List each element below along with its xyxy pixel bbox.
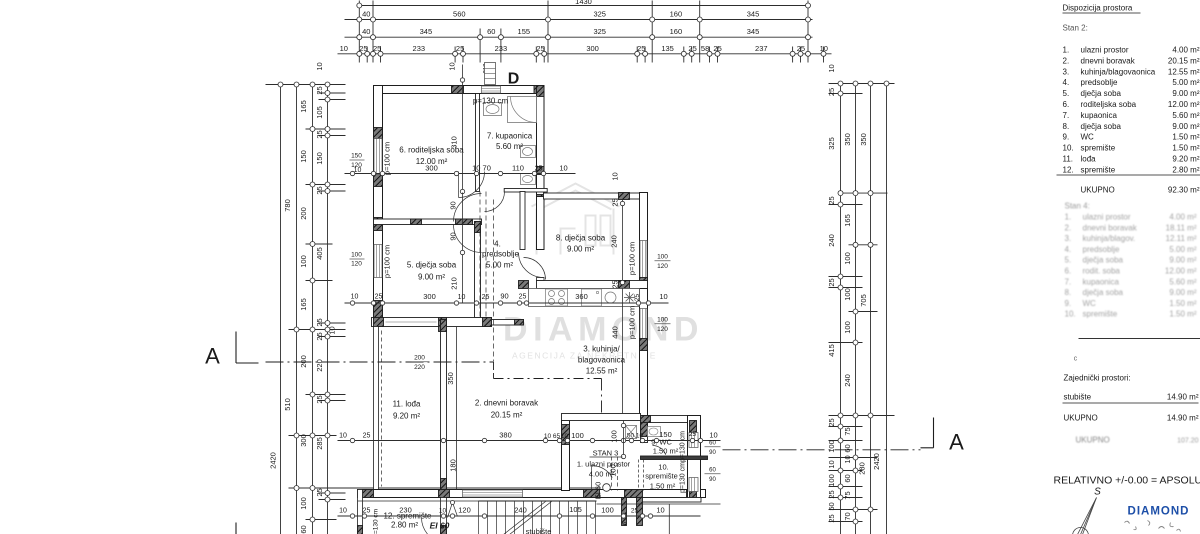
svg-text:dječja soba: dječja soba	[1083, 288, 1124, 297]
wc9 toilet	[648, 427, 661, 437]
svg-text:8.: 8.	[1065, 288, 1072, 297]
svg-text:4.: 4.	[1065, 245, 1072, 254]
svg-text:107.20: 107.20	[1177, 438, 1199, 445]
svg-text:100: 100	[843, 288, 852, 301]
svg-text:5.60 m²: 5.60 m²	[496, 142, 523, 151]
wall kitchen bottom	[562, 414, 641, 421]
watermark house logo	[532, 184, 620, 255]
svg-text:dječja soba: dječja soba	[1081, 89, 1122, 98]
svg-text:75: 75	[843, 427, 852, 435]
svg-text:780: 780	[283, 199, 292, 212]
door spremiste12	[422, 518, 442, 534]
svg-text:UKUPNO: UKUPNO	[1064, 414, 1098, 423]
svg-text:10: 10	[458, 294, 466, 301]
svg-text:12.55 m²: 12.55 m²	[1168, 67, 1200, 76]
wall hatch left divider junction	[374, 218, 383, 231]
svg-text:10: 10	[448, 62, 457, 70]
svg-text:50: 50	[627, 433, 635, 440]
wall wc right	[688, 416, 701, 502]
svg-text:12.: 12.	[1063, 165, 1074, 174]
svg-text:100: 100	[610, 430, 619, 443]
svg-text:UKUPNO: UKUPNO	[1081, 186, 1115, 195]
svg-text:1.50 m²: 1.50 m²	[1169, 299, 1196, 308]
svg-text:S: S	[1094, 487, 1101, 498]
svg-text:A: A	[949, 430, 964, 455]
svg-text:10: 10	[559, 164, 567, 173]
svg-text:100: 100	[601, 506, 614, 515]
svg-text:285: 285	[315, 437, 324, 450]
svg-text:25: 25	[315, 86, 324, 94]
svg-text:3.: 3.	[1063, 67, 1070, 76]
svg-text:2.80 m²: 2.80 m²	[391, 521, 418, 530]
entry circle symbol	[603, 484, 611, 492]
svg-text:25: 25	[713, 44, 721, 53]
left dimension chain	[280, 85, 282, 534]
svg-text:p=130 cm: p=130 cm	[473, 97, 509, 106]
wall room8 bottom	[537, 281, 648, 289]
svg-text:90: 90	[449, 232, 458, 240]
svg-text:10: 10	[820, 44, 828, 53]
wall bathroom right	[537, 86, 545, 197]
svg-text:240: 240	[827, 234, 836, 247]
svg-text:10: 10	[561, 433, 569, 440]
predsoblje dashed lines	[479, 192, 481, 317]
svg-text:1.: 1.	[1065, 213, 1072, 222]
svg-text:25: 25	[456, 44, 464, 53]
svg-text:100: 100	[827, 440, 836, 453]
svg-text:10: 10	[339, 433, 347, 440]
wall wc-spremiste divider	[641, 456, 708, 460]
svg-text:5.60 m²: 5.60 m²	[1169, 277, 1196, 286]
svg-text:8. dječja soba: 8. dječja soba	[556, 234, 606, 243]
svg-text:90: 90	[709, 477, 716, 483]
svg-text:stubište: stubište	[1064, 393, 1092, 402]
svg-text:25: 25	[315, 488, 324, 496]
window wc right p=130 upper	[689, 433, 698, 448]
svg-text:25: 25	[315, 332, 324, 340]
wall loggia left	[374, 327, 379, 491]
svg-text:3. kuhinja/: 3. kuhinja/	[583, 345, 620, 354]
svg-text:50: 50	[827, 502, 836, 510]
window right kitchen p=100	[640, 309, 647, 339]
svg-text:25: 25	[363, 433, 371, 440]
svg-text:560: 560	[453, 10, 466, 19]
svg-text:10: 10	[827, 460, 836, 468]
svg-text:p=100 cm: p=100 cm	[383, 245, 392, 278]
svg-text:300: 300	[299, 434, 308, 447]
svg-text:10: 10	[328, 326, 337, 334]
shaft with cross	[626, 426, 637, 439]
svg-text:100: 100	[657, 254, 668, 261]
svg-text:200: 200	[299, 207, 308, 220]
svg-text:10: 10	[339, 508, 347, 515]
svg-text:10: 10	[439, 508, 447, 515]
wall loggia top	[372, 318, 492, 327]
wall right exterior kitchen	[640, 289, 648, 416]
svg-text:200: 200	[414, 355, 425, 362]
svg-text:25: 25	[611, 198, 620, 206]
interior dim line y298	[345, 302, 669, 304]
svg-text:dnevni boravak: dnevni boravak	[1081, 56, 1136, 65]
svg-text:415: 415	[827, 344, 836, 357]
svg-text:405: 405	[315, 247, 324, 260]
svg-text:90: 90	[709, 450, 716, 456]
svg-text:25: 25	[631, 508, 639, 515]
svg-text:11. lođa: 11. lođa	[393, 400, 421, 409]
svg-text:spremište: spremište	[1081, 144, 1116, 153]
svg-text:1.50 m²: 1.50 m²	[653, 447, 679, 456]
svg-text:Dispozicija prostora: Dispozicija prostora	[1063, 4, 1133, 13]
svg-text:predsoblje: predsoblje	[482, 250, 519, 259]
svg-text:160: 160	[670, 27, 683, 36]
svg-text:5.60 m²: 5.60 m²	[1172, 111, 1199, 120]
svg-text:spremište: spremište	[645, 472, 678, 481]
svg-text:p=130 cm: p=130 cm	[680, 431, 687, 462]
svg-text:25: 25	[519, 294, 527, 301]
svg-text:dječja soba: dječja soba	[1083, 256, 1124, 265]
svg-text:9.00 m²: 9.00 m²	[1172, 89, 1199, 98]
svg-text:155: 155	[518, 27, 531, 36]
svg-text:10: 10	[340, 44, 348, 53]
svg-text:8.: 8.	[1063, 122, 1070, 131]
wall spremiste12 left	[358, 490, 363, 534]
svg-text:90: 90	[500, 292, 508, 301]
svg-text:12. spremište: 12. spremište	[383, 512, 432, 521]
svg-text:UKUPNO: UKUPNO	[1076, 436, 1110, 445]
svg-text:100: 100	[299, 255, 308, 268]
entry door dashed column	[611, 457, 613, 491]
svg-text:=130 cm: =130 cm	[373, 509, 380, 534]
svg-text:10.: 10.	[1065, 310, 1076, 319]
svg-text:dnevni boravak: dnevni boravak	[1083, 223, 1138, 232]
svg-text:Zajednički prostori:: Zajednički prostori:	[1064, 374, 1131, 383]
svg-text:6.: 6.	[1063, 100, 1070, 109]
svg-text:1. ulazni prostor: 1. ulazni prostor	[577, 460, 631, 469]
wall hatch left 2	[374, 175, 383, 187]
svg-text:25: 25	[827, 490, 836, 498]
svg-text:1.50 m²: 1.50 m²	[650, 482, 676, 491]
svg-text:dječja soba: dječja soba	[1081, 122, 1122, 131]
svg-text:25: 25	[827, 278, 836, 286]
svg-text:WC: WC	[1083, 299, 1097, 308]
svg-text:120: 120	[657, 326, 668, 333]
svg-text:25: 25	[482, 294, 490, 301]
svg-text:325: 325	[593, 10, 606, 19]
section bracket bottom-left	[235, 523, 237, 534]
svg-text:300: 300	[423, 292, 436, 301]
svg-text:220: 220	[414, 364, 425, 371]
shaft dashed	[638, 460, 640, 491]
vert dim entry line	[623, 421, 625, 459]
bathroom wc toilet	[521, 146, 536, 158]
svg-text:510: 510	[283, 398, 292, 411]
svg-text:90: 90	[449, 201, 458, 209]
svg-text:25: 25	[827, 88, 836, 96]
svg-text:6.: 6.	[1065, 267, 1072, 276]
svg-text:25: 25	[634, 294, 641, 302]
svg-text:kupaonica: kupaonica	[1083, 277, 1120, 286]
wall wc top	[641, 416, 701, 423]
svg-text:345: 345	[747, 27, 760, 36]
svg-text:10: 10	[827, 64, 836, 72]
svg-text:1.50 m²: 1.50 m²	[1169, 310, 1196, 319]
svg-text:60: 60	[299, 525, 308, 533]
svg-text:predsoblje: predsoblje	[1083, 245, 1120, 254]
svg-text:9.: 9.	[1065, 299, 1072, 308]
svg-text:325: 325	[827, 137, 836, 150]
wall predsoblje bottom ext	[492, 320, 524, 326]
svg-text:5.: 5.	[1065, 256, 1072, 265]
svg-text:280: 280	[858, 462, 867, 475]
wall hatch left 1	[374, 128, 383, 139]
svg-text:2.: 2.	[1065, 223, 1072, 232]
svg-text:233: 233	[413, 44, 426, 53]
svg-text:100: 100	[843, 252, 852, 265]
svg-text:kupaonica: kupaonica	[1081, 111, 1118, 120]
svg-text:9.00 m²: 9.00 m²	[418, 273, 445, 282]
svg-text:10: 10	[656, 506, 664, 515]
svg-text:25: 25	[315, 186, 324, 194]
svg-text:150: 150	[299, 150, 308, 163]
wall left exterior	[374, 86, 383, 327]
door room5 arc	[454, 225, 482, 253]
vert dim 440 kitchen	[622, 289, 624, 414]
svg-text:440: 440	[611, 326, 620, 339]
svg-text:6. roditeljska soba: 6. roditeljska soba	[399, 146, 464, 155]
svg-text:12.11 m²: 12.11 m²	[1166, 234, 1197, 243]
svg-text:4.00 m²: 4.00 m²	[1172, 46, 1199, 55]
svg-text:60: 60	[709, 441, 716, 447]
svg-text:DIAMOND: DIAMOND	[1128, 506, 1190, 518]
svg-text:25: 25	[359, 44, 367, 53]
svg-text:EI 60: EI 60	[430, 521, 450, 531]
svg-text:p=100 cm: p=100 cm	[628, 306, 637, 339]
wall bottom exterior	[358, 490, 706, 498]
svg-text:rodit. soba: rodit. soba	[1083, 267, 1121, 276]
svg-text:5.: 5.	[1063, 89, 1070, 98]
svg-text:7.: 7.	[1065, 277, 1072, 286]
svg-text:9. WC: 9. WC	[651, 438, 672, 447]
svg-text:10: 10	[315, 62, 324, 70]
svg-text:60: 60	[487, 27, 495, 36]
svg-text:A: A	[205, 344, 220, 369]
svg-text:60: 60	[843, 444, 852, 452]
svg-text:12.00 m²: 12.00 m²	[1165, 267, 1197, 276]
door bathroom	[459, 172, 485, 198]
svg-text:25: 25	[536, 44, 544, 53]
svg-text:STAN 3: STAN 3	[593, 449, 619, 458]
wall hatch top-left corner	[374, 86, 383, 94]
svg-text:18.11 m²: 18.11 m²	[1166, 223, 1197, 232]
bathroom sink	[484, 103, 502, 116]
svg-text:kuhinja/blagov.: kuhinja/blagov.	[1083, 234, 1136, 243]
svg-text:120: 120	[351, 162, 362, 169]
svg-text:5.00 m²: 5.00 m²	[486, 261, 513, 270]
svg-text:2420: 2420	[872, 453, 881, 470]
porch bars	[622, 498, 627, 526]
svg-text:40: 40	[362, 27, 370, 36]
svg-text:ulazni prostor: ulazni prostor	[1083, 213, 1131, 222]
svg-text:240: 240	[843, 374, 852, 387]
svg-text:240: 240	[514, 506, 527, 515]
boiler symbol	[624, 292, 635, 303]
svg-text:65: 65	[553, 433, 561, 440]
svg-text:105: 105	[315, 106, 324, 119]
wall loggia-living divider	[441, 320, 447, 491]
svg-text:325: 325	[593, 27, 606, 36]
svg-text:92.30 m²: 92.30 m²	[1168, 186, 1200, 195]
svg-text:9.00 m²: 9.00 m²	[1172, 122, 1199, 131]
wall room8 top	[544, 193, 648, 199]
svg-text:spremište: spremište	[1081, 165, 1116, 174]
svg-text:9.00 m²: 9.00 m²	[1169, 256, 1196, 265]
svg-text:160: 160	[670, 10, 683, 19]
section line A-A left	[235, 332, 237, 364]
wall predsoblje-kitchen	[520, 192, 525, 250]
svg-text:DIAMOND: DIAMOND	[503, 311, 704, 349]
svg-text:58: 58	[701, 44, 709, 53]
vert dim 240 room8	[622, 200, 624, 286]
svg-text:350: 350	[446, 372, 455, 385]
kitchen counter	[529, 289, 640, 307]
svg-text:10 70: 10 70	[472, 164, 491, 173]
svg-text:75: 75	[843, 491, 852, 499]
svg-text:345: 345	[420, 27, 433, 36]
svg-text:1430: 1430	[575, 0, 592, 6]
svg-text:20.15 m²: 20.15 m²	[1168, 56, 1200, 65]
svg-text:25: 25	[827, 514, 836, 522]
svg-text:kuhinja/blagovaonica: kuhinja/blagovaonica	[1081, 67, 1156, 76]
svg-text:10: 10	[709, 431, 717, 440]
wall spremiste12 right	[441, 498, 447, 534]
svg-text:10: 10	[636, 433, 644, 440]
wall bathroom bottom	[504, 189, 547, 193]
wall room5-predsoblje	[475, 222, 481, 318]
svg-text:70: 70	[843, 512, 852, 520]
svg-text:25: 25	[637, 44, 645, 53]
svg-text:25: 25	[689, 431, 697, 438]
shaft symbol above top wall	[485, 63, 496, 85]
svg-text:D: D	[508, 71, 520, 88]
door room8	[519, 253, 544, 278]
door wc9	[647, 427, 660, 436]
svg-text:2.80 m²: 2.80 m²	[1172, 165, 1199, 174]
vert dim 310	[462, 65, 464, 193]
svg-text:25: 25	[315, 130, 324, 138]
interior dim line y440	[338, 440, 721, 442]
svg-text:9.20 m²: 9.20 m²	[393, 412, 420, 421]
svg-text:210: 210	[450, 277, 459, 290]
kitchen round sink	[605, 292, 616, 303]
ghost list	[1065, 202, 1197, 319]
svg-text:14.90 m²: 14.90 m²	[1167, 393, 1199, 402]
svg-text:120: 120	[351, 261, 362, 268]
door room6 arc	[454, 194, 482, 222]
svg-text:1.: 1.	[1063, 46, 1070, 55]
svg-text:9.: 9.	[1063, 133, 1070, 142]
svg-text:3.: 3.	[1065, 234, 1072, 243]
bathroom shower	[508, 97, 537, 123]
wall wc west	[641, 423, 648, 443]
svg-text:25: 25	[797, 44, 805, 53]
svg-text:25: 25	[827, 418, 836, 426]
svg-text:180: 180	[449, 459, 458, 472]
svg-text:165: 165	[299, 100, 308, 113]
svg-text:100: 100	[657, 317, 668, 324]
stairs	[479, 500, 597, 502]
door entry EI60	[592, 466, 613, 478]
svg-text:RELATIVNO +/-0.00 = APSOLU: RELATIVNO +/-0.00 = APSOLU	[1054, 475, 1200, 487]
svg-text:105: 105	[569, 505, 582, 514]
svg-text:1.50 m²: 1.50 m²	[1172, 133, 1199, 142]
svg-text:100: 100	[299, 497, 308, 510]
svg-text:4.: 4.	[1063, 78, 1070, 87]
svg-text:blagovaonica: blagovaonica	[578, 356, 626, 365]
svg-text:p=100 cm: p=100 cm	[383, 142, 392, 175]
section dashdot right	[723, 449, 921, 451]
window top bathroom p=130	[482, 86, 501, 93]
wall hatch top right	[534, 86, 544, 94]
svg-text:10: 10	[843, 455, 852, 463]
svg-text:4.: 4.	[494, 240, 501, 249]
svg-text:5.00 m²: 5.00 m²	[1172, 78, 1199, 87]
section dashdot left	[266, 361, 494, 363]
svg-text:7. kupaonica: 7. kupaonica	[487, 132, 533, 141]
svg-text:100: 100	[843, 321, 852, 334]
svg-text:25: 25	[363, 508, 371, 515]
svg-text:2420: 2420	[269, 452, 278, 469]
svg-text:120: 120	[657, 263, 668, 270]
svg-text:25: 25	[827, 196, 836, 204]
svg-text:9.20 m²: 9.20 m²	[1172, 155, 1199, 164]
svg-text:12.00 m²: 12.00 m²	[1168, 100, 1200, 109]
svg-text:12.00 m²: 12.00 m²	[416, 157, 448, 166]
svg-text:233: 233	[495, 44, 508, 53]
door bathroom-predsoblje	[485, 192, 505, 212]
kitchen sink	[582, 289, 602, 306]
right dimension chain	[840, 84, 842, 534]
svg-text:14.90 m²: 14.90 m²	[1167, 414, 1199, 423]
svg-text:4.00 m²: 4.00 m²	[1169, 213, 1196, 222]
svg-text:200: 200	[299, 355, 308, 368]
svg-text:10: 10	[611, 172, 620, 180]
svg-text:25: 25	[315, 318, 324, 326]
stairs diagonal	[504, 502, 546, 534]
svg-text:705: 705	[859, 294, 868, 307]
svg-text:25: 25	[611, 280, 620, 288]
wall right exterior room8	[640, 193, 648, 307]
svg-text:2.: 2.	[1063, 56, 1070, 65]
wall top exterior	[374, 86, 545, 94]
svg-text:25: 25	[315, 395, 324, 403]
svg-text:Stan 4:: Stan 4:	[1065, 202, 1090, 211]
svg-text:380: 380	[499, 431, 512, 440]
svg-text:345: 345	[747, 10, 760, 19]
svg-text:25: 25	[535, 166, 543, 173]
wall room8 left lower stub	[537, 278, 545, 281]
svg-text:25: 25	[688, 44, 696, 53]
svg-text:150: 150	[351, 153, 362, 160]
bathroom bidet	[521, 174, 536, 185]
wall rooms 6-5 divider	[374, 219, 482, 225]
svg-text:25: 25	[373, 44, 381, 53]
svg-text:11.: 11.	[1063, 155, 1074, 164]
window right room8 p=100	[640, 241, 647, 278]
svg-text:120: 120	[458, 506, 471, 515]
svg-text:9.00 m²: 9.00 m²	[567, 245, 594, 254]
interior dim line y515	[338, 515, 701, 517]
svg-text:165: 165	[299, 298, 308, 311]
